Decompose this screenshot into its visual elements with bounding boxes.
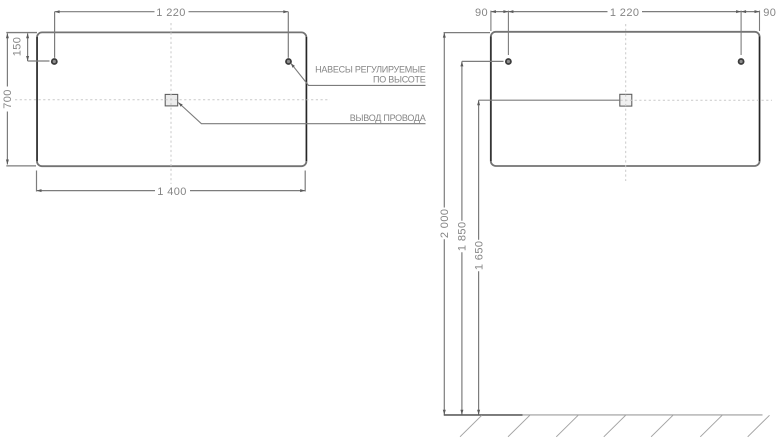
wire: dashed centerline horizontal right of square xyxy=(621,99,773,101)
extension right dot up xyxy=(740,11,742,55)
hanger dot left xyxy=(52,59,57,64)
dim line 1220 right view xyxy=(508,11,741,13)
floor hatch 3 xyxy=(556,415,578,437)
arrow 1650 top xyxy=(477,100,480,105)
mirror outline right view xyxy=(491,32,760,166)
dim 1650: vertical line xyxy=(478,100,480,240)
leader wire outlet label xyxy=(178,103,425,124)
svg-text:НАВЕСЫ РЕГУЛИРУЕМЫЕ: НАВЕСЫ РЕГУЛИРУЕМЫЕ xyxy=(315,65,426,75)
top dims: extension mirror-left up xyxy=(490,11,492,31)
dimension 1400: extension line right xyxy=(304,171,306,192)
dimension 150: bottom extension to dot xyxy=(28,60,50,62)
extension mirror-right up xyxy=(759,11,761,31)
bowtie arrows at 508.4 xyxy=(503,10,508,13)
svg-text:1 650: 1 650 xyxy=(473,241,485,271)
wire-outlet square left view xyxy=(165,94,178,106)
extension line bottom-left (mirror bottom extended) xyxy=(6,165,36,167)
extension left dot up xyxy=(507,11,509,55)
dim 1220 text mask right view xyxy=(608,5,643,18)
arrow 1220 left xyxy=(55,10,60,13)
svg-text:1 400: 1 400 xyxy=(157,186,187,198)
floor line dark segment xyxy=(444,414,523,416)
mirror right edge (dark) xyxy=(305,37,307,161)
svg-text:1 220: 1 220 xyxy=(610,7,640,19)
bowtie arrows at 741.1 xyxy=(736,10,741,13)
svg-text:90: 90 xyxy=(763,7,776,19)
dim 1850: vertical line xyxy=(461,61,463,220)
mirror left edge (dark) xyxy=(36,37,38,161)
wire: dashed centerline vertical left view xyxy=(170,23,172,186)
extension line top-left (mirror top extended) xyxy=(6,32,37,34)
arrow 1400 left xyxy=(37,189,42,192)
hanger dot left (right view) xyxy=(506,59,511,64)
dimension 1220 drop line left xyxy=(54,12,56,58)
arrow at 491 pointing left xyxy=(491,10,496,13)
svg-text:90: 90 xyxy=(475,7,488,19)
wire: dashed centerline vertical right view xyxy=(625,24,627,181)
arrow 1650 bottom xyxy=(477,410,480,415)
dimension 1400: extension line left xyxy=(36,171,38,192)
arrow 700 top xyxy=(6,33,9,38)
arrow 1850 bottom xyxy=(460,410,463,415)
dimension 1400: line xyxy=(37,190,306,192)
dimension 1220 text mask xyxy=(155,5,189,18)
svg-text:ВЫВОД ПРОВОДА: ВЫВОД ПРОВОДА xyxy=(350,113,426,123)
leader hangers arrowhead xyxy=(291,63,295,67)
dim line 90 left xyxy=(491,11,509,13)
dim 2000: vertical line xyxy=(443,33,445,208)
floor hatch 4 xyxy=(604,415,626,437)
svg-text:ПО ВЫСОТЕ: ПО ВЫСОТЕ xyxy=(373,74,426,84)
svg-text:700: 700 xyxy=(2,89,14,109)
mirror outline left view xyxy=(37,32,306,166)
svg-text:1 850: 1 850 xyxy=(457,222,469,252)
dim 1850: top extension to dot xyxy=(462,60,504,62)
dimension 1220 drop line right xyxy=(287,12,289,58)
mirror right edge (dark) xyxy=(759,37,761,162)
floor hatch 7 xyxy=(748,415,770,437)
hanger dot right xyxy=(286,59,291,64)
mirror left edge (dark) xyxy=(490,37,492,162)
svg-text:1 220: 1 220 xyxy=(156,7,186,19)
arrow 700 bottom xyxy=(6,160,9,165)
arrow 2000 bottom xyxy=(443,410,446,415)
floor hatch 2 xyxy=(508,415,530,437)
arrow 1850 top xyxy=(460,61,463,66)
dimension 1220 (left view): line xyxy=(55,11,289,13)
arrow 150 top xyxy=(26,33,29,38)
arrow at 759.5 pointing right xyxy=(755,10,760,13)
wire: dashed centerline horizontal left view xyxy=(15,99,330,101)
dimension 700: vertical line xyxy=(6,33,8,86)
svg-text:2 000: 2 000 xyxy=(439,209,451,239)
wire-outlet square right view xyxy=(620,94,632,106)
dim line 90 right xyxy=(741,11,759,13)
leader hangers label xyxy=(291,63,426,85)
floor hatch 5 xyxy=(651,415,673,437)
dim 2000: top extension xyxy=(444,32,490,34)
svg-text:150: 150 xyxy=(12,37,24,57)
arrow 1220 right xyxy=(283,10,288,13)
floor hatch 1 xyxy=(460,415,482,437)
arrow 1400 right xyxy=(300,189,305,192)
leader wire outlet arrowhead xyxy=(178,103,182,107)
dimension 150: vertical line xyxy=(27,33,29,61)
dim 1650: top extension to square xyxy=(479,99,620,101)
dimension 1400 text mask xyxy=(155,184,190,197)
arrow 2000 top xyxy=(443,33,446,38)
arrow 150 bottom xyxy=(26,56,29,61)
floor hatch 6 xyxy=(700,415,722,437)
hanger dot right (right view) xyxy=(739,59,744,64)
floor line xyxy=(444,414,763,416)
